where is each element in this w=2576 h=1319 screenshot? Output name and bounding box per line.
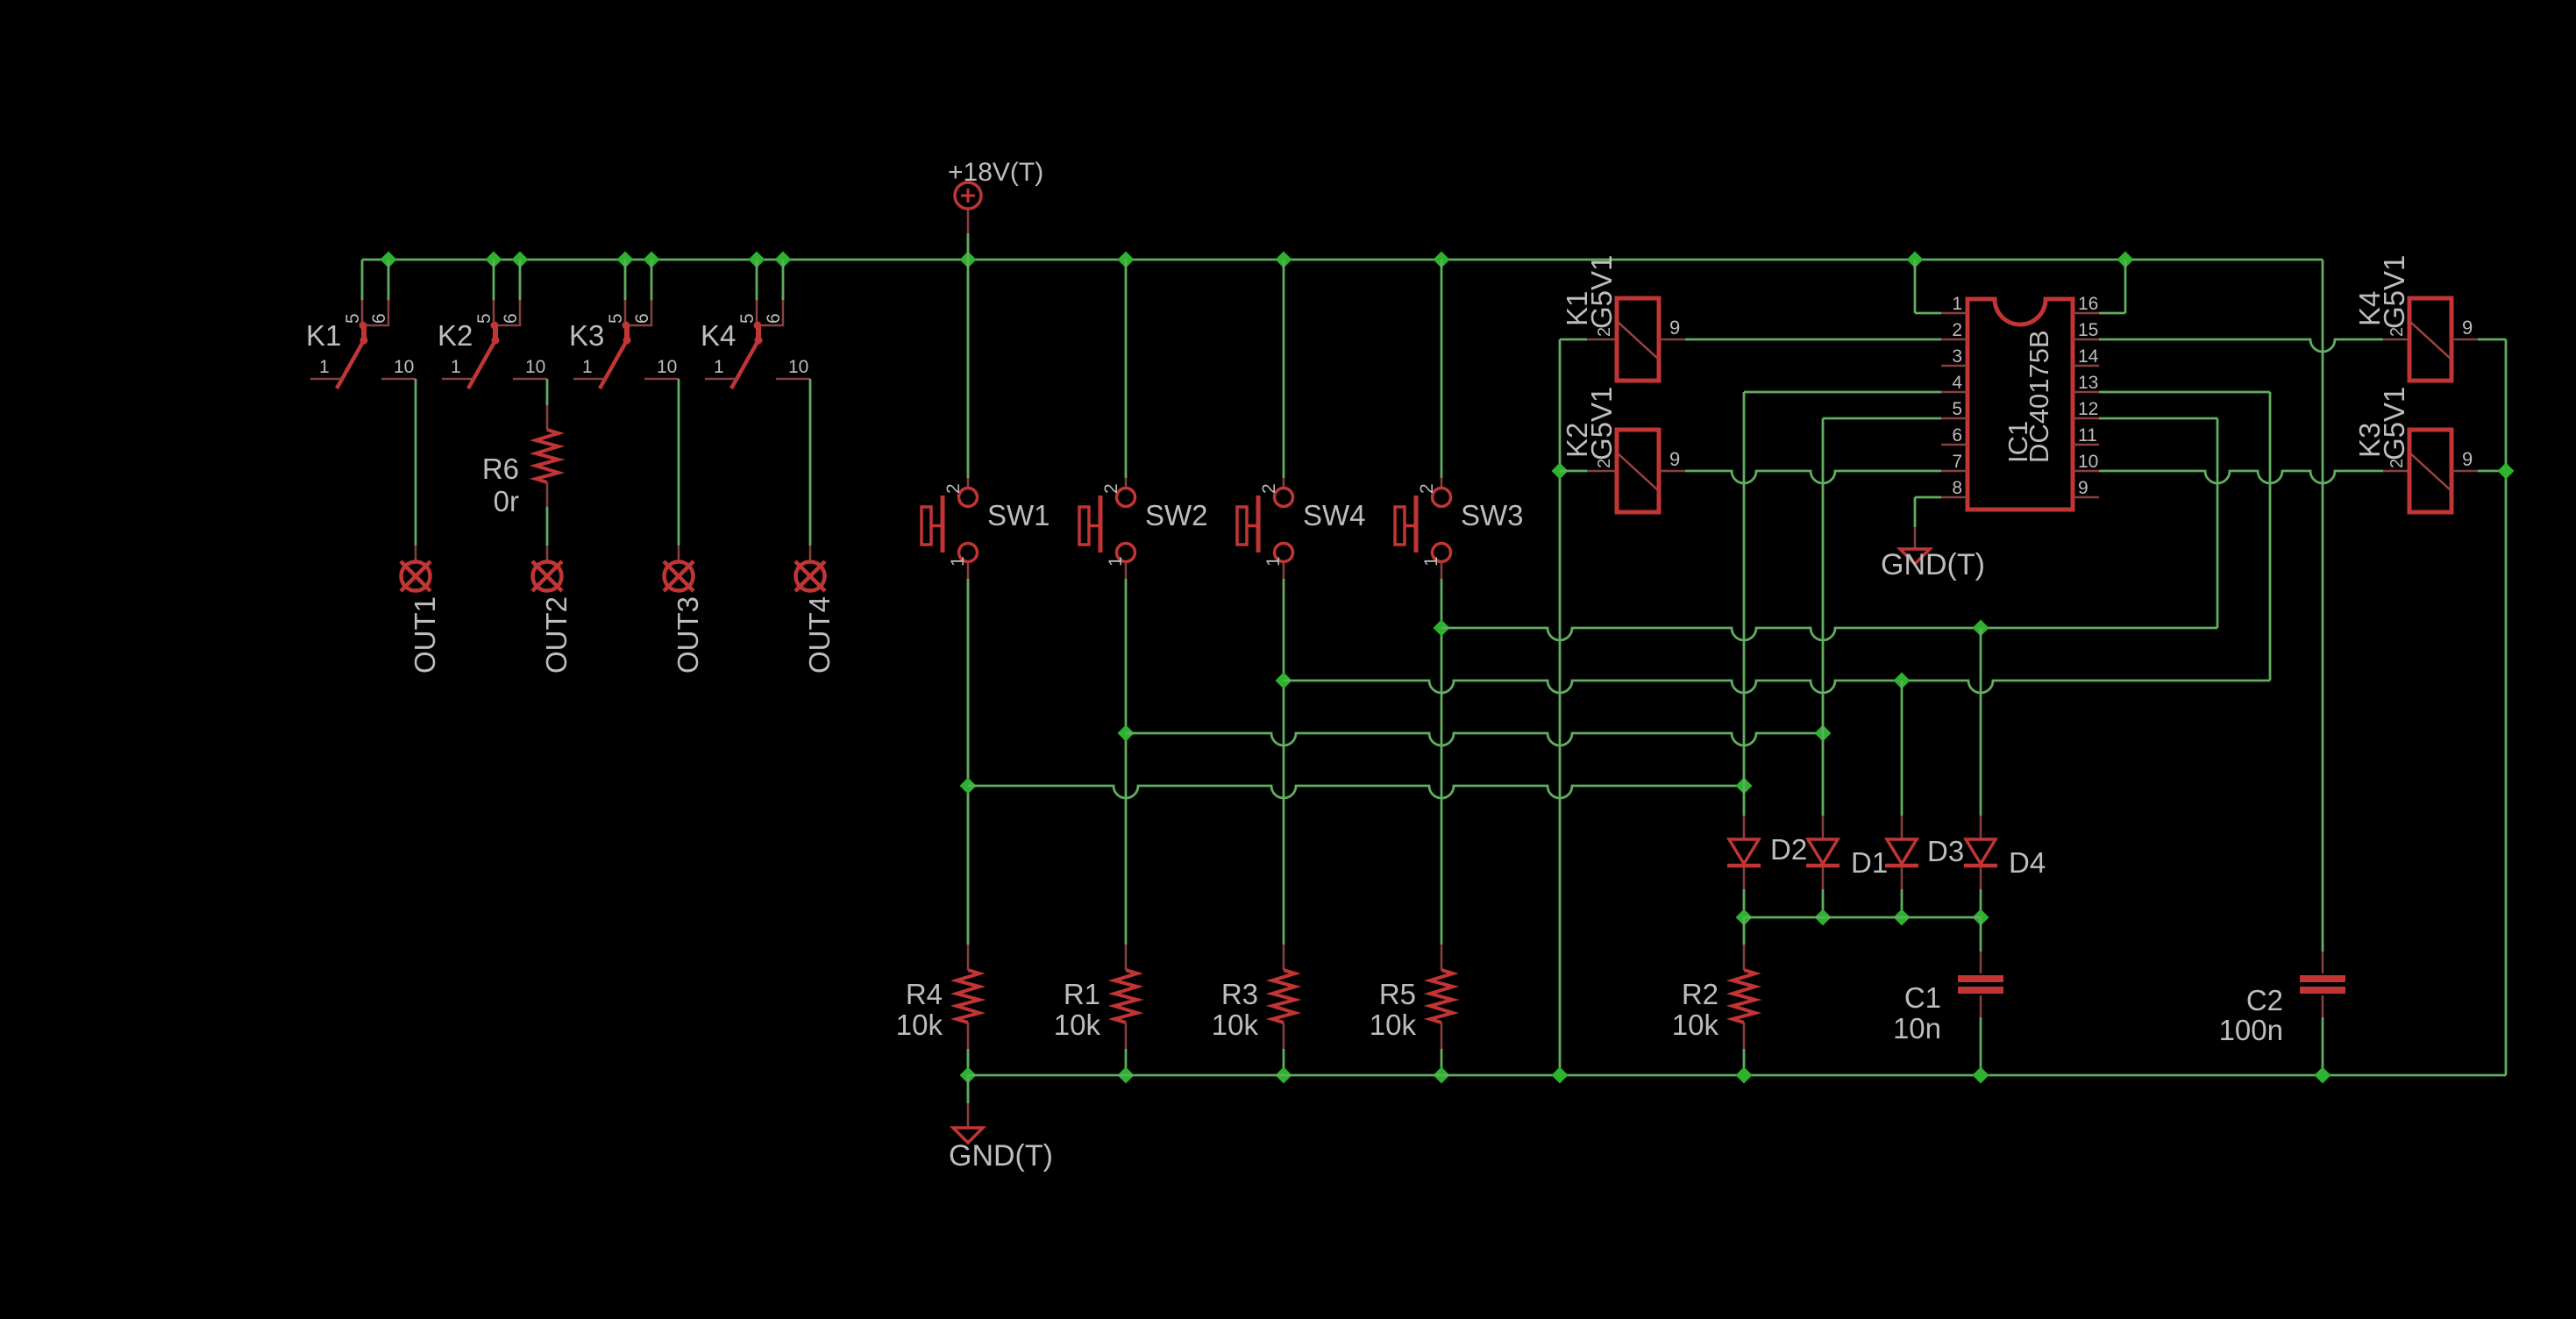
junction top rail IC pin1 branch [1907, 252, 1924, 268]
wire IC pin5 left-down [1823, 417, 1941, 420]
wire SW1 pin1 down to bus [967, 562, 970, 786]
wire diode row to R2 [1743, 917, 1746, 970]
resistor R4 [957, 970, 979, 1023]
wire R3 to bottom rail [1283, 1023, 1285, 1075]
label R6 [482, 453, 519, 485]
label GND(T) at IC [1881, 548, 1985, 581]
wire K1 coil pin2 stub [1560, 339, 1617, 341]
pin label 9 of K2 coil [1669, 448, 1680, 470]
wire K1 coil pin9 stub [1659, 339, 1685, 341]
ic IC1 DC40175B body [1968, 299, 2073, 510]
wire K4 coil pin2 stub [2383, 339, 2409, 341]
svg-text:D2: D2 [1770, 833, 1807, 866]
label OUT1 [409, 596, 441, 674]
pin label 6 of K2 [501, 313, 521, 324]
pin label 5 of K1 [343, 313, 363, 324]
wire to diode D3 anode [1901, 681, 1904, 839]
svg-text:12: 12 [2078, 399, 2098, 419]
junction coil vertical at K2 [1552, 463, 1569, 480]
switch SW1 [922, 488, 978, 562]
label R2 [1682, 978, 1719, 1010]
junction right riser at K3 [2498, 463, 2515, 480]
label R5 [1379, 978, 1416, 1010]
resistor R6 [536, 430, 559, 482]
wire K2 coil pin9 stub [1659, 470, 1685, 473]
pin label 1 of K4 [714, 357, 724, 377]
diode D4 [1964, 839, 1997, 866]
junction diode row at D3 [1894, 909, 1911, 926]
switch SW4 [1237, 488, 1293, 562]
relay contact K2 [442, 300, 547, 389]
svg-text:1: 1 [1421, 556, 1441, 567]
wire diode D3 cathode down [1901, 867, 1904, 917]
pin label 2 of SW4 [1259, 483, 1279, 494]
junction bus836 at D1 column [1815, 725, 1832, 742]
wire +18V top rail [362, 259, 2323, 261]
svg-text:10k: 10k [1212, 1009, 1259, 1041]
label R5 value 10k [1370, 1009, 1417, 1041]
svg-text:5: 5 [343, 313, 363, 324]
svg-text:1: 1 [582, 357, 593, 377]
svg-text:OUT4: OUT4 [803, 596, 836, 674]
svg-text:GND(T): GND(T) [1881, 548, 1985, 581]
junction bottom rail at R5 [1434, 1067, 1450, 1084]
svg-text:5: 5 [1952, 399, 1962, 419]
svg-text:R2: R2 [1682, 978, 1719, 1010]
junction bottom rail at R3 [1276, 1067, 1292, 1084]
junction bus896 at D2 column [1736, 778, 1753, 795]
svg-text:15: 15 [2078, 320, 2098, 340]
pin label 9 of K4 coil [2462, 317, 2473, 339]
capacitor C2 [2300, 979, 2345, 990]
junction top rail x=1284 [1118, 252, 1135, 268]
wire IC pin12 right [2099, 417, 2217, 420]
wire +18V symbol to rail [967, 233, 970, 260]
wire rail to K1 pin 5 [361, 260, 364, 301]
label K2 [438, 319, 473, 352]
wire pin12 vertical [2217, 418, 2219, 628]
ground GND(T) at IC [1900, 549, 1930, 564]
wire rail to K1 pin 6 [388, 260, 390, 301]
connector OUT1 [401, 561, 431, 591]
junction bus716 at D4 column [1973, 620, 1989, 637]
svg-text:SW2: SW2 [1145, 499, 1208, 531]
svg-text:10k: 10k [1370, 1009, 1417, 1041]
junction bottom rail at R2 [1736, 1067, 1753, 1084]
wire SW4 column bus to resistor [1283, 681, 1285, 970]
pin label 2 of K1 coil [1595, 327, 1614, 337]
wire K3 coil pin9 to right riser [2478, 470, 2506, 473]
resistor R3 [1272, 970, 1295, 1023]
junction top rail x=713 [617, 252, 634, 268]
diode D1 [1806, 839, 1839, 866]
wire bottom rail right riser to K3/K4 [2505, 339, 2508, 1075]
pin label 1 of SW2 [1106, 556, 1126, 567]
svg-text:K2: K2 [438, 319, 473, 352]
svg-text:DC40175B: DC40175B [2024, 330, 2054, 463]
relay coil K4 [2409, 298, 2451, 381]
junction diode row at D2 [1736, 909, 1753, 926]
svg-text:9: 9 [1669, 317, 1680, 339]
wire diode row to C1 [1980, 917, 1982, 973]
capacitor C1 [1958, 979, 2003, 990]
svg-text:5: 5 [474, 313, 495, 324]
wire rail to K3 pin 5 [624, 260, 627, 301]
pin label 1 of SW3 [1421, 556, 1441, 567]
resistor R1 [1114, 970, 1137, 1023]
junction bottom rail at C2 [2315, 1067, 2331, 1084]
label K3 coil [2353, 423, 2386, 458]
svg-text:R5: R5 [1379, 978, 1416, 1010]
pin label 10 of K2 [525, 357, 545, 377]
label K3 G5V1 [2378, 387, 2410, 460]
wire K pin10 down to OUT3 [678, 379, 680, 562]
svg-text:D1: D1 [1851, 846, 1888, 879]
junction coil vertical at bottom rail [1552, 1067, 1569, 1084]
svg-text:11: 11 [2078, 425, 2097, 446]
label K2 coil [1561, 423, 1593, 458]
pin label 1 of K2 [451, 357, 461, 377]
pin label 9 of K1 coil [1669, 317, 1680, 339]
wire bus SW2 to IC pin5 column (y=836) [1126, 733, 1823, 745]
switch SW3 [1395, 488, 1451, 562]
pin label 1 of SW4 [1263, 556, 1284, 567]
label D4 [2009, 846, 2046, 879]
svg-text:6: 6 [1952, 425, 1962, 446]
svg-text:5: 5 [737, 313, 758, 324]
svg-text:4: 4 [1952, 373, 1962, 393]
label K1 coil [1561, 291, 1593, 326]
wire K pin10 down to OUT4 [809, 379, 812, 562]
wire C2 to bottom rail [2322, 995, 2324, 1075]
label K1 [306, 319, 341, 352]
svg-text:10: 10 [525, 357, 545, 377]
wire rail to K2 pin 5 [493, 260, 495, 301]
wire IC pin4 vertical [1743, 392, 1746, 786]
wire rail down to SW3 pin 2 [1441, 260, 1443, 488]
junction top rail x=743 [644, 252, 660, 268]
label 0r [494, 485, 519, 517]
wire IC pin16 to rail [2099, 260, 2125, 313]
ic IC1 pin stubs [1941, 313, 2099, 497]
wire K3 coil pin9 stub [2451, 470, 2478, 473]
svg-text:10n: 10n [1893, 1012, 1941, 1045]
svg-text:10: 10 [657, 357, 677, 377]
svg-text:9: 9 [1669, 448, 1680, 470]
svg-text:+18V(T): +18V(T) [948, 158, 1043, 187]
wire bus SW3 to IC pin12 (y=716) [1441, 628, 2217, 640]
label DC40175B [2024, 330, 2054, 463]
pin label 2 of K2 coil [1595, 459, 1614, 468]
pin label 1 of SW1 [948, 556, 968, 567]
wire to bottom GND [967, 1075, 970, 1128]
label K2 G5V1 [1585, 387, 1618, 460]
svg-text:13: 13 [2078, 373, 2098, 393]
svg-text:16: 16 [2078, 294, 2098, 314]
svg-text:2: 2 [1101, 483, 1121, 494]
label D1 [1851, 846, 1888, 879]
junction top rail IC pin16 branch [2117, 252, 2134, 268]
svg-text:10k: 10k [896, 1009, 943, 1041]
pin label 2 of SW3 [1417, 483, 1437, 494]
svg-text:1: 1 [1263, 556, 1284, 567]
junction top rail x=893 [775, 252, 792, 268]
svg-text:K4: K4 [701, 319, 736, 352]
label C1 value 10n [1893, 1012, 1941, 1045]
pin label 2 of SW1 [943, 483, 964, 494]
svg-text:2: 2 [1595, 327, 1614, 337]
wire rail to K3 pin 6 [651, 260, 653, 301]
svg-text:10: 10 [2078, 452, 2098, 472]
junction SW1 bus tap [960, 778, 977, 795]
svg-text:SW4: SW4 [1303, 499, 1366, 531]
label C1 [1904, 981, 1941, 1014]
pin label 2 of K3 coil [2387, 459, 2407, 468]
junction SW2 bus tap [1118, 725, 1135, 742]
pin label 5 of K4 [737, 313, 758, 324]
svg-text:OUT3: OUT3 [672, 596, 704, 674]
junction bottom rail at R1 [1118, 1067, 1135, 1084]
pin label 1 of K3 [582, 357, 593, 377]
label OUT3 [672, 596, 704, 674]
junction top rail x=443 [381, 252, 397, 268]
wire IC pin8 to GND [1915, 497, 1941, 549]
junction top rail x=593 [512, 252, 529, 268]
junction top rail x=863 [749, 252, 765, 268]
label IC1 [2003, 421, 2033, 463]
svg-text:R1: R1 [1064, 978, 1100, 1010]
wire SW3 column bus to resistor [1441, 628, 1443, 970]
wire SW2 column bus to resistor [1125, 733, 1128, 970]
pin label 6 of K1 [369, 313, 389, 324]
svg-text:10: 10 [394, 357, 414, 377]
connector OUT2 [532, 561, 562, 591]
wire SW4 pin1 down to bus [1283, 562, 1285, 681]
label K3 [569, 319, 604, 352]
svg-text:G5V1: G5V1 [1585, 387, 1618, 460]
svg-text:9: 9 [2078, 478, 2089, 498]
ground GND(T) bottom [953, 1128, 983, 1143]
wire IC pin4 left-down [1744, 391, 1941, 394]
label K4 coil [2353, 291, 2386, 326]
junction top rail x=1464 [1276, 252, 1292, 268]
wire K3 coil pin2 stub [2383, 470, 2409, 473]
wire rail down to SW1 pin 2 [967, 260, 970, 488]
wire R5 to bottom rail [1441, 1023, 1443, 1075]
wire rail corner down to C2 [2322, 260, 2324, 973]
wire to diode D4 anode [1980, 628, 1982, 839]
label R1 [1064, 978, 1100, 1010]
svg-text:9: 9 [2462, 317, 2473, 339]
wire diode cathode row [1744, 916, 1981, 919]
svg-text:2: 2 [1595, 459, 1614, 468]
label GND(T) bottom [949, 1139, 1053, 1173]
wire IC pin15 to K4 coil [2099, 339, 2383, 352]
label C2 value 100n [2219, 1014, 2283, 1046]
svg-text:GND(T): GND(T) [949, 1139, 1053, 1173]
svg-text:2: 2 [1952, 320, 1962, 340]
svg-text:1: 1 [948, 556, 968, 567]
label SW3 [1461, 499, 1524, 531]
svg-text:8: 8 [1952, 478, 1962, 498]
label R2 value 10k [1672, 1009, 1719, 1041]
svg-text:K3: K3 [569, 319, 604, 352]
connector OUT4 [795, 561, 825, 591]
svg-text:2: 2 [1259, 483, 1279, 494]
wire to diode D1 anode [1822, 733, 1825, 839]
svg-text:SW1: SW1 [987, 499, 1050, 531]
pin label 2 of K4 coil [2387, 327, 2407, 337]
relay contact K1 [310, 300, 416, 389]
label R4 value 10k [896, 1009, 943, 1041]
svg-text:0r: 0r [494, 485, 519, 517]
wire IC pin13 right [2099, 391, 2270, 394]
pin label 5 of K3 [606, 313, 626, 324]
pin label 9 of K3 coil [2462, 448, 2473, 470]
wire diode D2 cathode down [1743, 867, 1746, 917]
resistor R2 [1733, 970, 1755, 1023]
svg-text:3: 3 [1952, 346, 1962, 367]
wire C1 to bottom rail [1980, 995, 1982, 1075]
svg-text:10: 10 [788, 357, 808, 377]
svg-text:R4: R4 [906, 978, 943, 1010]
pin label 10 of K1 [394, 357, 414, 377]
label SW1 [987, 499, 1050, 531]
label K1 G5V1 [1585, 255, 1618, 329]
wire IC pin10 to K3 coil [2099, 471, 2383, 483]
wire bus SW1 to IC pin4 column (y=896) [968, 786, 1744, 798]
svg-text:6: 6 [369, 313, 389, 324]
junction bus776 at D3 column [1894, 673, 1911, 689]
svg-text:K1: K1 [306, 319, 341, 352]
pin label 2 of SW2 [1101, 483, 1121, 494]
relay contact K3 [573, 300, 679, 389]
wire SW2 pin1 down to bus [1125, 562, 1128, 733]
relay coil K3 [2409, 430, 2451, 512]
svg-text:D4: D4 [2009, 846, 2046, 879]
label C2 [2246, 984, 2283, 1016]
wire K2 coil to IC pin7 [1685, 471, 1941, 483]
pin label 6 of K4 [764, 313, 784, 324]
wire SW1 column bus to resistor [967, 786, 970, 970]
wire IC pin5 vertical [1822, 418, 1825, 733]
junction bottom rail at R4 [960, 1067, 977, 1084]
svg-text:G5V1: G5V1 [2378, 255, 2410, 329]
junction top rail x=563 [486, 252, 502, 268]
label +18V(T) [948, 158, 1043, 187]
wire to diode D2 anode [1743, 786, 1746, 839]
wire K1 coil left vertical to ground rail [1559, 339, 1562, 1075]
junction diode row at D4 [1973, 909, 1989, 926]
svg-text:G5V1: G5V1 [2378, 387, 2410, 460]
ic IC1 pin numbers [1952, 294, 2098, 498]
pin label 5 of K2 [474, 313, 495, 324]
pin label 10 of K3 [657, 357, 677, 377]
svg-text:C1: C1 [1904, 981, 1941, 1014]
wire rail down to SW2 pin 2 [1125, 260, 1128, 488]
svg-text:G5V1: G5V1 [1585, 255, 1618, 329]
svg-text:R6: R6 [482, 453, 519, 485]
label R4 [906, 978, 943, 1010]
svg-text:10k: 10k [1672, 1009, 1719, 1041]
pin label 1 of K1 [319, 357, 330, 377]
svg-text:OUT2: OUT2 [540, 596, 573, 674]
diode D2 [1727, 839, 1761, 866]
svg-text:1: 1 [1952, 294, 1962, 314]
wire rail to K2 pin 6 [519, 260, 522, 301]
junction top rail x=1644 [1434, 252, 1450, 268]
svg-text:1: 1 [319, 357, 330, 377]
wire K2 pin10 down to R6 [546, 379, 549, 430]
label K4 [701, 319, 736, 352]
relay coil K2 [1617, 430, 1659, 512]
svg-text:1: 1 [451, 357, 461, 377]
junction bottom rail at C1 [1973, 1067, 1989, 1084]
connector OUT3 [664, 561, 694, 591]
wire SW3 pin1 down to bus [1441, 562, 1443, 628]
label SW4 [1303, 499, 1366, 531]
wire bus SW4 to IC pin13 (y=776) [1284, 681, 2270, 693]
label R3 value 10k [1212, 1009, 1259, 1041]
svg-text:SW3: SW3 [1461, 499, 1524, 531]
wire K4 coil pin9 stub [2451, 339, 2478, 341]
label OUT4 [803, 596, 836, 674]
wire bottom GND rail [968, 1074, 2506, 1077]
label R1 value 10k [1054, 1009, 1101, 1041]
resistor R5 [1430, 970, 1453, 1023]
svg-text:2: 2 [943, 483, 964, 494]
power +18V(T) supply symbol [955, 182, 981, 233]
junction SW3 bus tap [1434, 620, 1450, 637]
wire K2 coil pin2 stub [1560, 470, 1617, 473]
svg-text:2: 2 [2387, 327, 2407, 337]
svg-text:6: 6 [632, 313, 652, 324]
wire R1 to bottom rail [1125, 1023, 1128, 1075]
svg-text:7: 7 [1952, 452, 1962, 472]
svg-text:10k: 10k [1054, 1009, 1101, 1041]
svg-text:6: 6 [764, 313, 784, 324]
pin label 10 of K4 [788, 357, 808, 377]
relay contact K4 [705, 300, 810, 389]
svg-text:100n: 100n [2219, 1014, 2283, 1046]
junction SW4 bus tap [1276, 673, 1292, 689]
label R3 [1221, 978, 1258, 1010]
wire K1 coil to IC pin2 [1685, 339, 1941, 341]
svg-text:14: 14 [2078, 346, 2099, 367]
diode D3 [1885, 839, 1918, 866]
svg-text:D3: D3 [1927, 835, 1964, 867]
wire R6 to OUT2 [546, 482, 549, 562]
label K4 G5V1 [2378, 255, 2410, 329]
wire rail to K4 pin 5 [756, 260, 758, 301]
svg-text:C2: C2 [2246, 984, 2283, 1016]
wire R2 to bottom rail [1743, 1023, 1746, 1075]
relay coil K1 [1617, 298, 1659, 381]
wire R4 to bottom rail [967, 1023, 970, 1075]
junction top rail x=1104 [960, 252, 977, 268]
svg-text:1: 1 [714, 357, 724, 377]
wire pin13 vertical [2269, 392, 2272, 681]
svg-text:2: 2 [1417, 483, 1437, 494]
wire diode D4 cathode down [1980, 867, 1982, 917]
svg-text:2: 2 [2387, 459, 2407, 468]
wire diode D1 cathode down [1822, 867, 1825, 917]
wire K pin10 down to OUT1 [415, 379, 417, 562]
pin label 6 of K3 [632, 313, 652, 324]
label SW2 [1145, 499, 1208, 531]
wire K4 coil pin9 to right riser [2478, 339, 2506, 341]
wire rail down to SW4 pin 2 [1283, 260, 1285, 488]
